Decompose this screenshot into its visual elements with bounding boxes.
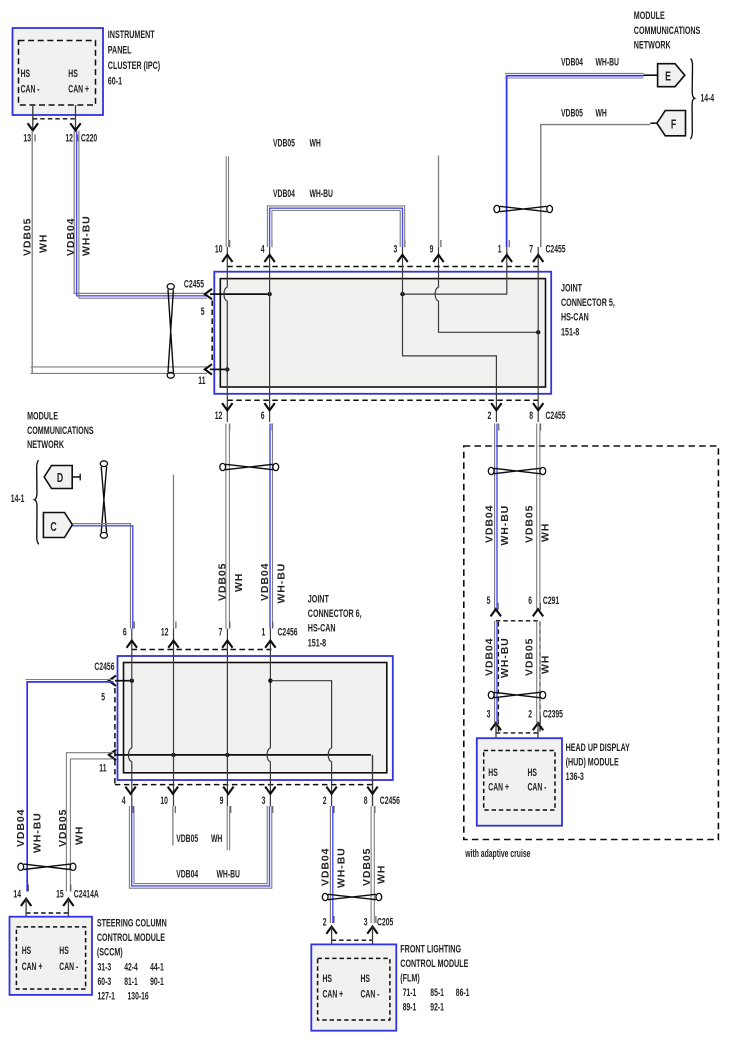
svg-text:WH-BU: WH-BU [499,505,511,546]
svg-text:CLUSTER (IPC): CLUSTER (IPC) [108,60,160,72]
wire VDB05 WH from JC5 pin 8 to C291 pin 6 [524,424,552,610]
svg-text:WH-BU: WH-BU [217,868,241,880]
twisted pair symbol left of JC5 [167,284,174,379]
svg-text:WH-BU: WH-BU [81,215,93,256]
svg-text:STEERING COLUMN: STEERING COLUMN [97,917,167,929]
svg-text:VDB04: VDB04 [273,188,296,200]
svg-text:C2456: C2456 [94,660,114,672]
wire VDB04 WH-BU from connector C to JC6 pin 6 [72,524,132,629]
wire loop VDB04 WH-BU between JC5 pins 4 and 3 [267,188,404,247]
svg-text:CAN -: CAN - [59,960,78,972]
svg-text:11: 11 [198,374,205,386]
label FLM name [400,943,469,1013]
svg-text:60-3: 60-3 [98,975,112,987]
svg-text:14-4: 14-4 [701,92,715,104]
connector C2414A pins on SCCM [13,885,99,927]
svg-text:10: 10 [160,794,168,806]
svg-text:3: 3 [487,708,491,720]
JC5 internal vertical pin 4 to pin 6 [269,247,271,422]
joint connector 5 box JC5 HS-CAN 151-8 [212,267,551,401]
svg-text:CAN +: CAN + [488,781,509,793]
svg-text:2: 2 [323,794,327,806]
svg-text:VDB05: VDB05 [57,809,69,847]
svg-text:C2455: C2455 [546,243,566,255]
svg-text:CAN +: CAN + [22,960,43,972]
svg-text:2: 2 [323,916,327,928]
svg-text:F: F [671,118,677,132]
svg-text:WH-BU: WH-BU [499,637,511,678]
wire VDB04 WH-BU from JC5 pin 2 to C291 pin 5 [484,424,511,610]
label JC5 name [561,282,615,338]
svg-text:44-1: 44-1 [150,961,164,973]
svg-text:7: 7 [219,626,223,638]
module IPC box (Instrument Panel Cluster) [13,28,104,115]
wire VDB04 WH-BU from IPC pin 12 to JC5 pin 5 [65,131,207,299]
connector C291 pins [487,594,560,620]
svg-text:VDB05: VDB05 [273,137,295,149]
svg-text:VDB04: VDB04 [484,638,496,676]
JC5 internal bus pin 11 to pin 10/12 [210,367,230,371]
svg-text:3: 3 [364,916,368,928]
svg-text:WH-BU: WH-BU [275,563,287,604]
JC5 internal vertical pin 7 to pin 8 [537,247,539,422]
svg-text:HS: HS [59,944,68,956]
label module communications network top right [634,10,701,51]
twisted pair symbol above SCCM [18,863,76,870]
svg-text:E: E [665,70,671,84]
connector E [644,64,685,87]
svg-text:151-8: 151-8 [308,637,326,649]
svg-text:JOINT: JOINT [561,282,582,294]
svg-text:90-1: 90-1 [150,975,164,987]
svg-text:CONTROL MODULE: CONTROL MODULE [400,958,468,970]
svg-text:HS: HS [68,67,77,79]
svg-text:COMMUNICATIONS: COMMUNICATIONS [634,24,701,36]
svg-text:WH: WH [376,865,388,884]
svg-text:12: 12 [65,132,73,144]
svg-text:WH: WH [540,655,552,674]
svg-text:WH: WH [211,832,222,844]
JC5 bottom pin arrows and numbers 12 6 2 8 C2455 [215,403,566,430]
svg-text:VDB04: VDB04 [15,809,27,847]
svg-text:C220: C220 [81,132,97,144]
svg-text:CAN -: CAN - [528,781,547,793]
connector dashed box between C291 and C2395 [498,622,540,732]
wire VDB05 WH from JC6 pin 11 to SCCM pin 15 [57,753,114,892]
svg-text:C2455: C2455 [184,278,204,290]
svg-text:12: 12 [161,626,169,638]
svg-text:1: 1 [498,243,502,255]
wire VDB04 WH-BU from JC5 pin 6 to JC6 pin 1 [259,424,287,629]
svg-text:(HUD) MODULE: (HUD) MODULE [566,756,619,768]
JC6 pin 11 arrow and label [99,750,116,774]
svg-text:31-3: 31-3 [98,961,112,973]
svg-text:FRONT LIGHTING: FRONT LIGHTING [400,943,461,955]
svg-text:136-3: 136-3 [566,771,584,783]
connector C2395 pins on HUD [487,708,563,752]
wire VDB05 WH from IPC pin 13 to JC5 pin 11 [22,131,208,374]
JC5 top pin arrows and numbers 10 4 3 9 1 7 C2455 [215,240,566,262]
svg-text:89-1: 89-1 [403,1001,417,1013]
svg-text:VDB04: VDB04 [484,505,496,543]
svg-text:CONNECTOR 6,: CONNECTOR 6, [308,608,362,620]
svg-text:42-4: 42-4 [124,961,138,973]
JC5 internal pin 1 to pin 3 wire [400,247,507,296]
JC6 bottom pin arrows and numbers 4 10 9 3 2 8 C2456 [122,787,400,813]
svg-text:WH-BU: WH-BU [310,188,334,200]
svg-text:HS: HS [323,972,332,984]
JC6 top pin arrows and numbers 6 12 7 1 C2456 [123,622,298,648]
twisted pair symbol above FLM [322,893,381,900]
svg-text:92-1: 92-1 [430,1001,444,1013]
wire VDB05 WH from JC5 pin 12 to JC6 pin 7 [216,424,245,629]
svg-text:CONNECTOR 5,: CONNECTOR 5, [561,297,615,309]
svg-text:151-8: 151-8 [561,326,579,338]
wire loop VDB04 WH-BU between JC6 pins 4 and 3 [129,806,271,888]
svg-text:HS: HS [22,944,31,956]
svg-text:1: 1 [262,626,266,638]
svg-text:81-1: 81-1 [124,975,138,987]
wire VDB05 WH from C291 to C2395 [524,621,552,723]
connector C205 pins on FLM [323,916,394,959]
svg-text:5: 5 [101,691,105,703]
svg-text:6: 6 [123,626,127,638]
wire VDB05 WH from JC6 pin 8 to FLM [361,806,388,923]
svg-text:NETWORK: NETWORK [27,439,64,451]
svg-text:WH: WH [233,573,245,592]
svg-text:VDB04: VDB04 [561,56,584,68]
svg-text:8: 8 [529,409,533,421]
svg-text:9: 9 [220,794,224,806]
JC6 internal bus pin 5 to pin 6/4 [115,679,134,683]
svg-text:VDB04: VDB04 [259,563,271,601]
svg-text:NETWORK: NETWORK [634,39,671,51]
label IPC name [108,28,160,87]
wire VDB04 WH-BU from JC5 pin 1 to connector E [505,56,644,247]
svg-text:9: 9 [430,243,434,255]
JC6 pin 5 arrow and labels C2456 [94,660,116,703]
svg-text:JOINT: JOINT [308,593,329,605]
JC6 internal vertical pin 6 to pin 4 [128,629,131,807]
label HUD name [566,742,631,783]
svg-text:C2456: C2456 [380,794,400,806]
label with adaptive cruise [465,847,531,859]
svg-text:HS: HS [488,767,497,779]
svg-text:14: 14 [13,888,21,900]
svg-text:127-1: 127-1 [98,990,115,1002]
svg-text:VDB05: VDB05 [561,107,583,119]
JC6 internal vertical pin 7 to pin 9 [226,629,228,807]
JC5 internal pin 3 to pin 2 wire [403,247,497,422]
joint connector 6 box JC6 HS-CAN 151-8 [115,650,393,785]
svg-text:WH: WH [310,137,321,149]
wire stub above JC6 pin 12 [173,475,175,629]
wire VDB04 WH-BU from JC6 pin 5 to SCCM pin 14 [15,680,113,892]
svg-text:CAN -: CAN - [21,83,40,95]
twisted pair symbol above JC5 pins 1/7 [494,205,553,212]
svg-text:6: 6 [528,594,532,606]
svg-text:130-16: 130-16 [128,990,149,1002]
svg-text:C: C [50,520,56,534]
svg-text:C2455: C2455 [546,409,566,421]
svg-text:(FLM): (FLM) [400,972,419,984]
dashed option box with adaptive cruise [464,446,719,840]
svg-text:VDB05: VDB05 [524,638,536,676]
brace 14-1 [11,460,39,544]
svg-text:3: 3 [394,243,398,255]
svg-text:C2456: C2456 [278,626,298,638]
svg-text:WH-BU: WH-BU [336,847,348,888]
svg-text:HS: HS [528,767,537,779]
svg-text:3: 3 [262,794,266,806]
twisted pair symbol below JC5 pins 2/8 [488,467,545,474]
module SCCM box (Steering Column Control Module) [10,917,93,995]
svg-text:14-1: 14-1 [11,492,25,504]
JC6 internal pin 1 to pin 2 wire [270,681,331,806]
svg-text:WH: WH [596,107,607,119]
svg-text:C2395: C2395 [543,708,563,720]
svg-text:HS: HS [361,972,370,984]
svg-text:60-1: 60-1 [108,75,122,87]
svg-text:HEAD UP DISPLAY: HEAD UP DISPLAY [566,742,631,754]
JC5 pin 11 arrow and label [198,364,212,386]
svg-text:D: D [57,471,63,485]
svg-text:VDB04: VDB04 [320,848,332,886]
svg-text:12: 12 [215,409,223,421]
label module communications network left [27,410,94,451]
wire stubs VDB05 WH below JC6 pins 10 and 9 [173,806,230,850]
connector C220 pins on IPC [23,105,97,144]
svg-text:VDB04: VDB04 [176,868,199,880]
svg-text:CAN +: CAN + [323,988,344,1000]
wire VDB04 WH-BU from C291 to C2395 [484,621,511,723]
svg-text:WH-BU: WH-BU [32,812,44,853]
svg-text:2: 2 [488,409,492,421]
twisted pair symbol between JC5 and JC6 [220,463,279,470]
JC6 internal vertical pin 12 to pin 10 [173,629,175,807]
svg-text:with adaptive cruise: with adaptive cruise [465,847,531,859]
svg-text:WH-BU: WH-BU [596,56,620,68]
svg-text:HS-CAN: HS-CAN [308,622,336,634]
JC5 pin 5 arrow and labels C2455 [184,278,212,318]
svg-text:86-1: 86-1 [456,986,470,998]
svg-text:10: 10 [215,243,223,255]
svg-text:INSTRUMENT: INSTRUMENT [108,28,155,40]
twisted pair symbol above C2395 [488,691,545,698]
JC5 internal pin 9 to pin 7/8 wire [435,247,540,334]
svg-text:VDB04: VDB04 [65,218,77,256]
JC6 internal bus pin 11 to pins 12/10 7/9 8 [115,753,373,806]
label SCCM name [97,917,167,1002]
label JC6 name [308,593,362,649]
svg-text:6: 6 [261,409,265,421]
connector D [44,466,80,489]
svg-text:VDB05: VDB05 [216,563,228,601]
svg-text:VDB05: VDB05 [361,848,373,886]
svg-text:WH: WH [37,234,49,253]
svg-text:71-1: 71-1 [403,986,417,998]
svg-text:8: 8 [364,794,368,806]
svg-text:WH: WH [73,826,85,845]
svg-text:C291: C291 [543,594,559,606]
JC5 internal bus pin 5 to pin 4/6 [210,292,272,296]
JC5 internal vertical pin 10 to pin 12 [224,247,227,422]
svg-text:C205: C205 [377,916,393,928]
svg-text:COMMUNICATIONS: COMMUNICATIONS [27,424,94,436]
svg-text:HS: HS [21,67,30,79]
svg-text:VDB05: VDB05 [176,832,198,844]
svg-text:CAN +: CAN + [68,83,89,95]
wire VDB05 WH from JC5 pin 7 to connector F [541,107,651,247]
svg-text:15: 15 [56,888,64,900]
module FLM box (Front Lighting Control Module) [311,944,396,1030]
twisted pair symbol near connector C [100,461,107,538]
svg-text:CONTROL MODULE: CONTROL MODULE [97,932,165,944]
svg-text:85-1: 85-1 [430,986,444,998]
svg-text:MODULE: MODULE [27,410,58,422]
connector C [43,513,72,538]
svg-text:MODULE: MODULE [634,10,665,22]
svg-text:PANEL: PANEL [108,44,132,56]
connector F [650,111,685,136]
wire VDB04 WH-BU from JC6 pin 2 to FLM [320,806,348,923]
svg-text:5: 5 [201,305,205,317]
svg-text:11: 11 [99,762,106,774]
svg-text:13: 13 [23,132,31,144]
svg-text:HS-CAN: HS-CAN [561,311,589,323]
svg-text:7: 7 [529,243,533,255]
svg-text:2: 2 [528,708,532,720]
svg-text:(SCCM): (SCCM) [97,946,123,958]
JC6 internal vertical pin 1 to pin 3 [267,629,273,807]
svg-text:VDB05: VDB05 [22,218,34,256]
brace 14-4 [690,59,715,140]
svg-text:VDB05: VDB05 [524,505,536,543]
svg-text:WH: WH [540,523,552,542]
wire stub VDB05 WH above JC5 pins 10 and 9 [226,137,438,247]
module HUD box (Head Up Display Module) [477,738,562,826]
svg-text:C2414A: C2414A [74,888,99,900]
svg-text:5: 5 [487,594,491,606]
svg-text:CAN -: CAN - [361,988,380,1000]
